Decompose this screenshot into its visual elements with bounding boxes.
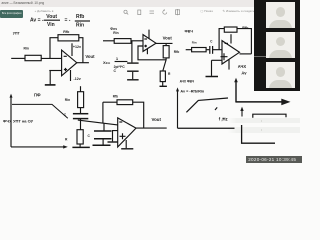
resistor R (circuit 2): [160, 71, 165, 82]
minus input mark U4: [119, 121, 122, 123]
ground capacitor circuit 2: [127, 79, 139, 81]
minus input mark U3: [225, 42, 228, 44]
wire between Rfb and R: [163, 58, 166, 71]
wire R to ground: [79, 144, 81, 147]
wire feedback right vertical: [79, 38, 83, 63]
wire output to Rfb drop: [165, 43, 167, 45]
wire output circuit 4: [136, 127, 167, 129]
resistor R (circuit 4): [77, 130, 83, 144]
L-shape axis: [242, 125, 275, 143]
svg-text:Av = -: Av = -: [30, 17, 44, 23]
wire to inverting input: [41, 57, 61, 59]
resistor Rfb (circuit 3): [224, 27, 237, 32]
capacitor C (circuit 3) plate 1: [209, 46, 211, 54]
wire R to ground: [162, 82, 164, 86]
ground R circuit 4: [72, 146, 89, 148]
V- pin U2: [146, 49, 148, 54]
svg-text:Rfb: Rfb: [63, 30, 70, 34]
ground plus input circuit 4: [108, 141, 119, 143]
formula Av = -Vout/Vin = -Rfb/Rin: [30, 14, 84, 29]
resistor Rin (circuit 3): [192, 48, 207, 52]
wire plus to ground circuit 3: [211, 60, 213, 76]
wire capacitor drop circuit 2: [131, 41, 133, 63]
wire input circuit 1: [11, 57, 24, 59]
svg-text:ПФ: ПФ: [34, 93, 41, 98]
teal "Все фотографии" button: [0, 10, 23, 19]
op-amp U3: [222, 41, 240, 64]
wire output circuit 1: [77, 62, 89, 64]
participant thumbnail 1: [266, 2, 295, 28]
svg-text:АЧХ ФВЧ: АЧХ ФВЧ: [180, 80, 195, 84]
participant thumbnail 2: [266, 32, 295, 58]
svg-text:Rin: Rin: [192, 41, 197, 45]
svg-text:Xc=: Xc=: [103, 60, 111, 65]
graph 2 gain curve: [186, 98, 228, 112]
svg-text:C: C: [88, 134, 91, 138]
timestamp bar: [246, 156, 302, 164]
graph 2 horizontal axis: [178, 127, 235, 129]
wire feedback left vertical: [50, 38, 58, 59]
wire feedback left vertical (circuit 4): [102, 102, 104, 123]
op-amp U2: [143, 35, 156, 52]
graph 1 horizontal axis: [11, 146, 65, 148]
graph 1 phase curve: [12, 104, 68, 118]
wire non-inverting input: [49, 70, 61, 72]
resistor Rfb (circuit 1): [58, 35, 79, 41]
arrow thick frequency axis: [235, 101, 283, 103]
svg-text:Rfb: Rfb: [76, 14, 84, 20]
svg-text:Rin: Rin: [76, 23, 84, 29]
V- pin U3: [228, 59, 230, 69]
svg-text:Rfb: Rfb: [242, 26, 249, 30]
op-amp U1: [62, 50, 77, 76]
wire Rin to capacitor: [80, 108, 82, 114]
wire Rfb left (circuit 4): [103, 101, 117, 103]
resistor Rin (circuit 2): [114, 39, 131, 44]
plus input mark U1: [64, 68, 67, 71]
V- pin U4: [125, 140, 127, 148]
window title text: [2, 1, 45, 5]
svg-text:Vout: Vout: [46, 14, 57, 20]
capacitor C series (circuit 4) plate 1: [73, 113, 88, 115]
svg-text:+12v: +12v: [73, 45, 81, 49]
fraction bar Vout/Vin: [44, 19, 60, 21]
resistor Rfb (circuit 4): [117, 100, 133, 105]
plus input mark U3: [221, 53, 228, 60]
resistor Rfb (circuit 2): [163, 46, 169, 58]
bracket line: [253, 114, 286, 118]
ground circuit 1: [45, 84, 56, 86]
svg-text:Rin: Rin: [65, 98, 70, 102]
"+ Добавить в" toolbar text: [35, 9, 54, 13]
wire feedback circuit 3: [219, 29, 224, 50]
V+ pin U3: [230, 34, 232, 43]
small up arrow: [241, 109, 243, 117]
svg-text:C: C: [114, 69, 117, 73]
op-amp U4: [118, 118, 136, 147]
graph 2 vertical axis: [177, 90, 179, 129]
svg-text:Vout: Vout: [163, 36, 173, 41]
mini axes vertical with arrow: [235, 81, 237, 102]
ground circuit 2 divider: [160, 85, 167, 87]
svg-text:УПТ: УПТ: [13, 31, 21, 35]
minus input mark U2: [144, 38, 147, 40]
wire to ground circuit 1: [49, 71, 51, 85]
svg-text:-12v: -12v: [74, 77, 81, 81]
faint UI bands bottom right: [228, 118, 300, 124]
"Изменить и создать" toolbar text: [201, 9, 213, 13]
toolbar icons row: [120, 8, 180, 18]
wire capacitor to minus input: [213, 49, 222, 51]
svg-text:= -: = -: [65, 17, 71, 23]
resistor Rin (circuit 1): [25, 55, 41, 60]
small tick mark: [215, 107, 217, 110]
fraction bar Rfb/Rin: [75, 20, 90, 22]
plus input mark U2: [144, 45, 147, 48]
svg-text:Rin: Rin: [24, 46, 29, 50]
svg-text:R: R: [65, 138, 68, 142]
participant thumbnail 3: [266, 62, 295, 88]
wire input circuit 2: [103, 40, 114, 42]
wire below capacitor: [132, 72, 134, 79]
capacitor C (circuit 3) plate 2: [212, 46, 214, 54]
wire feedback right circuit 3: [237, 29, 251, 54]
wire output circuit 2: [156, 42, 173, 44]
svg-text:Av = -Rfb/Rin: Av = -Rfb/Rin: [180, 90, 204, 94]
svg-text:Rin: Rin: [113, 31, 118, 35]
graph 1 vertical axis: [10, 96, 12, 147]
wire to minus input circuit 2: [131, 40, 143, 42]
fraction bar Xc: [115, 61, 128, 63]
capacitor C2 plate 2: [94, 138, 112, 140]
wire resistor to capacitor: [206, 49, 209, 51]
title bar: [0, 0, 300, 7]
formula Xc = 1/(2pi*f*C): [103, 56, 125, 69]
svg-text:C: C: [210, 39, 213, 43]
resistor Rin (circuit 4): [78, 92, 84, 108]
minus input mark U1: [64, 55, 67, 57]
wire Rfb right to output (circuit 4): [133, 102, 144, 128]
svg-text:2pi*f*C: 2pi*f*C: [114, 65, 126, 69]
svg-text:Rfb: Rfb: [113, 95, 118, 99]
wire plus input to ground (circuit 4): [113, 131, 118, 142]
svg-text:Vout: Vout: [152, 117, 162, 122]
capacitor C2 stem (circuit 4): [103, 123, 105, 130]
capacitor C series (circuit 4) plate 2: [73, 118, 88, 120]
faint gray line over black strip: [254, 55, 266, 58]
svg-text:1: 1: [116, 56, 119, 61]
ground V- circuit 4: [121, 148, 133, 150]
svg-text:ФЧХ УПТ на ОУ: ФЧХ УПТ на ОУ: [3, 118, 34, 123]
ground C2 circuit 4: [93, 144, 111, 146]
-12v supply pin U1: [70, 70, 72, 81]
wire input circuit 3: [186, 49, 192, 51]
capacitor C2 plate 1: [94, 130, 112, 132]
wire C2 to ground: [102, 139, 104, 145]
wire output circuit 3: [240, 53, 252, 55]
wire plus input circuit 3: [212, 59, 223, 61]
svg-text:Av: Av: [241, 70, 247, 75]
svg-text:Rfb: Rfb: [174, 50, 180, 54]
capacitor C (circuit 2) plate 1: [127, 62, 139, 64]
+12v supply pin U1: [71, 43, 73, 56]
wire node to minus input (circuit 4): [78, 120, 118, 125]
plus input mark U4: [120, 133, 126, 139]
svg-text:Vout: Vout: [85, 54, 95, 59]
schematic drawing layer: [0, 0, 300, 168]
video thumbnails strip: [254, 0, 300, 91]
wire plus input circuit 2: [138, 46, 166, 60]
V+ pin U2: [148, 30, 150, 39]
svg-text:ФВЧ: ФВЧ: [185, 30, 194, 34]
svg-text:R: R: [168, 72, 171, 76]
svg-text:АЧХ: АЧХ: [238, 64, 247, 69]
wire node to resistor R (circuit 4): [80, 119, 82, 130]
ground circuit 3: [206, 76, 219, 78]
capacitor C (circuit 2) plate 2: [127, 70, 139, 72]
svg-text:Vin: Vin: [47, 22, 55, 28]
wire input top (circuit 4): [80, 86, 82, 92]
